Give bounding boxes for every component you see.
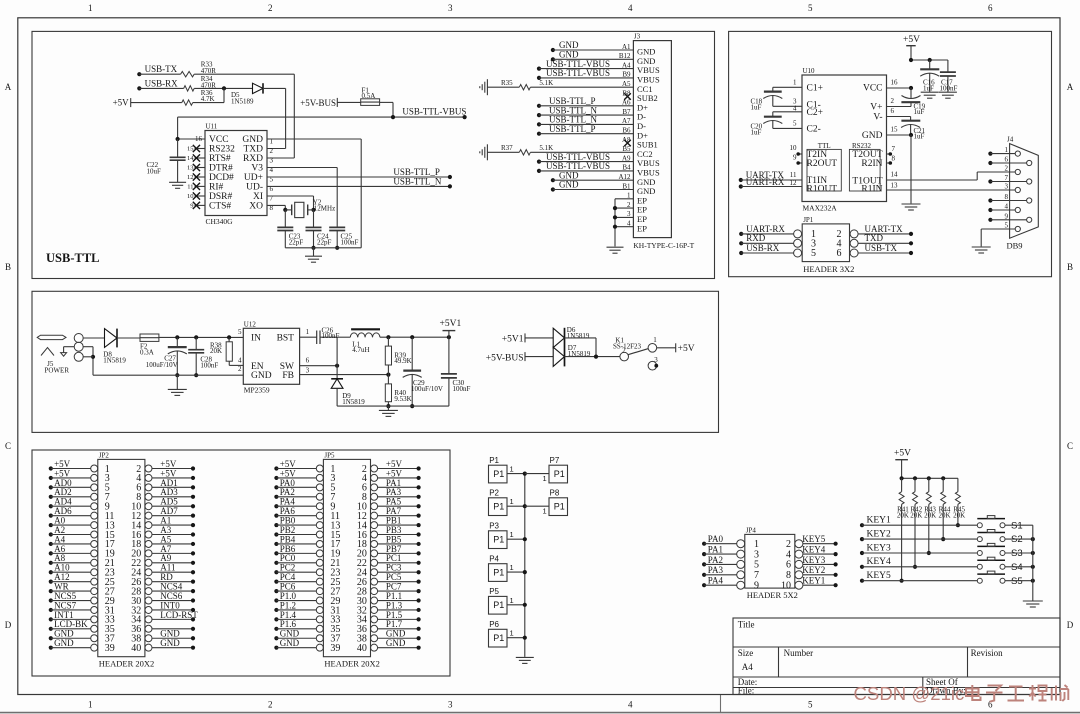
svg-text:+5V-BUS: +5V-BUS — [486, 353, 524, 363]
svg-text:RS232: RS232 — [852, 142, 872, 150]
capacitor C23 — [284, 210, 286, 228]
U11 pin4 V3 wire — [267, 167, 337, 169]
JP5 row 15 pins 29/30 — [316, 597, 323, 604]
JP5 row 11 pins 21/22 — [316, 559, 323, 566]
svg-text:CSDN @21ic: CSDN @21ic — [854, 683, 965, 704]
svg-text:4: 4 — [793, 104, 797, 112]
ground C22 — [169, 181, 186, 183]
svg-text:DTR#: DTR# — [209, 164, 233, 174]
svg-text:P3: P3 — [489, 522, 499, 531]
USB-TTL block border — [32, 31, 715, 278]
svg-text:11: 11 — [187, 183, 193, 190]
svg-text:TXD: TXD — [865, 233, 884, 243]
wire P-connector ground bus — [524, 474, 526, 657]
svg-text:P4: P4 — [489, 555, 499, 564]
svg-text:5: 5 — [238, 328, 242, 336]
connector J5 POWER jack — [37, 335, 66, 339]
svg-text:B: B — [5, 262, 11, 272]
svg-text:+5V-BUS: +5V-BUS — [300, 98, 336, 108]
wire R34 to D5 — [194, 87, 252, 89]
svg-text:1: 1 — [306, 328, 310, 336]
svg-text:1: 1 — [510, 530, 514, 539]
resistor R33 — [181, 72, 195, 77]
svg-text:KH-TYPE-C-16P-T: KH-TYPE-C-16P-T — [633, 241, 694, 250]
svg-text:5: 5 — [754, 560, 759, 571]
crystal ground rail — [285, 247, 361, 249]
svg-text:1: 1 — [510, 596, 514, 605]
svg-text:USB-TTL-VBUS: USB-TTL-VBUS — [546, 161, 610, 171]
JP2 row 16 pins 31/32 — [91, 606, 98, 613]
svg-text:GND: GND — [160, 638, 180, 648]
U11 pin8 XO wire — [267, 204, 285, 206]
svg-text:C1+: C1+ — [807, 83, 823, 93]
resistor R38 — [226, 342, 232, 361]
headers block border — [32, 450, 450, 676]
svg-text:16: 16 — [891, 79, 899, 87]
svg-text:6: 6 — [891, 107, 895, 115]
svg-text:P1: P1 — [489, 456, 499, 465]
svg-text:GND: GND — [242, 135, 263, 145]
net KEY2 — [860, 537, 864, 541]
svg-text:9: 9 — [793, 153, 797, 161]
capacitor C21 — [901, 120, 920, 122]
svg-text:4: 4 — [628, 3, 633, 13]
svg-text:A: A — [1067, 82, 1074, 92]
svg-text:R2OUT: R2OUT — [807, 159, 838, 169]
net KEY4 — [860, 565, 864, 569]
switch S2 — [977, 537, 982, 542]
svg-text:1: 1 — [1005, 146, 1009, 154]
svg-text:2: 2 — [622, 346, 626, 354]
svg-text:USB-TX: USB-TX — [145, 64, 178, 74]
crystal Y2 — [291, 205, 293, 216]
svg-text:10: 10 — [790, 144, 798, 152]
J5 wires — [83, 337, 104, 339]
svg-text:KEY3: KEY3 — [802, 555, 825, 565]
svg-text:FB: FB — [282, 371, 294, 381]
svg-text:S1: S1 — [1011, 520, 1023, 531]
svg-text:39: 39 — [330, 643, 340, 654]
svg-text:11: 11 — [790, 171, 797, 179]
net USB-TTL_P — [267, 176, 450, 178]
JP2 row 17 pins 33/34 — [91, 616, 98, 623]
JP5 row 20 pins 39/40 — [316, 644, 323, 651]
svg-text:GND: GND — [251, 371, 272, 381]
svg-text:20K: 20K — [953, 511, 965, 519]
JP2 row 2 pins 3/4 — [91, 474, 98, 481]
svg-text:+5V: +5V — [894, 448, 911, 458]
svg-text:3: 3 — [448, 700, 453, 710]
svg-text:R2IN: R2IN — [861, 159, 882, 169]
connector P2 — [489, 498, 508, 516]
watermark CJK glyphs — [966, 685, 981, 700]
svg-text:P5: P5 — [489, 587, 499, 596]
svg-text:S5: S5 — [1011, 576, 1023, 587]
svg-text:6: 6 — [988, 3, 993, 13]
svg-text:0.5A: 0.5A — [362, 92, 376, 100]
svg-text:GND: GND — [54, 638, 74, 648]
svg-text:4.7uH: 4.7uH — [352, 346, 369, 354]
svg-text:0.3A: 0.3A — [140, 348, 154, 356]
svg-text:3: 3 — [1005, 183, 1009, 191]
diode D6 — [553, 328, 564, 347]
connector JP1 HEADER 3X2 — [802, 224, 849, 262]
svg-text:J3: J3 — [634, 33, 641, 41]
net KEY5 — [860, 579, 864, 583]
svg-text:1uF: 1uF — [751, 128, 762, 136]
svg-text:8: 8 — [892, 154, 896, 162]
output ground rail — [337, 405, 449, 407]
connector J3 KH-TYPE-C-16P-T — [633, 41, 671, 238]
svg-text:P1: P1 — [493, 469, 504, 479]
wire GND down — [910, 135, 912, 203]
ground power input — [176, 375, 178, 389]
svg-text:MAX232A: MAX232A — [803, 203, 838, 212]
resistor R45 — [957, 478, 959, 491]
JP4 row 4 — [737, 571, 745, 579]
wire F2 to U12 IN — [159, 336, 243, 338]
svg-text:U11: U11 — [206, 123, 218, 131]
U10 pin2 V+ wire — [887, 106, 912, 108]
svg-text:6: 6 — [306, 356, 310, 364]
svg-text:9: 9 — [1005, 212, 1009, 220]
svg-text:1: 1 — [543, 474, 547, 483]
capacitor C16 — [929, 60, 931, 69]
svg-text:CH340G: CH340G — [206, 217, 234, 226]
svg-text:8: 8 — [1005, 193, 1009, 201]
svg-text:1: 1 — [793, 78, 797, 86]
svg-text:10uF: 10uF — [147, 168, 162, 176]
svg-text:P1: P1 — [493, 633, 504, 643]
svg-text:8: 8 — [786, 570, 791, 581]
U11 NC pins with X marks — [195, 148, 206, 150]
U10 RS232 group box — [849, 149, 880, 191]
diode D5 — [253, 83, 264, 93]
svg-text:J4: J4 — [1007, 136, 1014, 144]
svg-text:1: 1 — [510, 563, 514, 572]
diode cathode bar D6 D7 — [564, 328, 566, 367]
svg-text:20K: 20K — [938, 511, 950, 519]
wire VBUS to VCC — [177, 117, 179, 139]
JP4 row 2 — [737, 550, 745, 558]
svg-text:1: 1 — [653, 336, 657, 344]
net KEY1 — [860, 523, 864, 527]
U10 pin11 T1IN wire / net UART-TX — [739, 178, 743, 182]
JP5 row 19 pins 37/38 — [316, 635, 323, 642]
capacitor C26 — [316, 331, 318, 345]
svg-text:+5V: +5V — [113, 98, 130, 108]
svg-text:KEY5: KEY5 — [867, 571, 892, 581]
svg-text:100uF/10V: 100uF/10V — [146, 361, 178, 369]
switch S3 — [977, 551, 982, 556]
U10 pin14 T1OUT wire to DB9 pin2 — [887, 179, 978, 181]
IC U10 MAX232A — [802, 75, 887, 202]
svg-text:C: C — [1067, 441, 1073, 451]
U11 pin1 GND wire — [267, 138, 361, 140]
connector P6 — [489, 629, 508, 647]
svg-text:2: 2 — [268, 700, 273, 710]
U10 pin13 R1IN wire to DB9 pin3 — [887, 189, 1016, 191]
svg-text:PA2: PA2 — [708, 555, 723, 565]
power block border — [32, 291, 719, 432]
wire keys ground bus — [1032, 525, 1034, 600]
U10 pin15 GND wire — [887, 134, 912, 136]
MAX232 block border — [729, 31, 1052, 276]
connector P7 — [549, 465, 568, 483]
switch S5 — [977, 578, 982, 583]
connector P8 — [549, 498, 568, 516]
svg-text:V3: V3 — [251, 164, 263, 174]
svg-text:39: 39 — [105, 643, 115, 654]
J4 pin wires right column — [988, 161, 992, 165]
JP2 row 14 pins 27/28 — [91, 588, 98, 595]
JP5 row 1 pins 1/2 — [316, 465, 323, 472]
svg-text:HEADER 20X2: HEADER 20X2 — [99, 659, 154, 669]
svg-text:100nF: 100nF — [940, 85, 958, 93]
svg-text:S3: S3 — [1011, 548, 1023, 559]
svg-text:14: 14 — [891, 171, 899, 179]
JP5 row 14 pins 27/28 — [316, 588, 323, 595]
svg-text:2: 2 — [786, 539, 791, 550]
svg-text:USB-TTL: USB-TTL — [46, 251, 100, 265]
svg-text:+5V: +5V — [678, 344, 695, 354]
svg-text:A4: A4 — [742, 662, 753, 672]
svg-text:JP1: JP1 — [803, 216, 814, 224]
wire D8 to F2 — [117, 337, 140, 339]
wire pullup rail — [902, 477, 958, 479]
svg-text:Size: Size — [738, 648, 754, 658]
svg-text:R35: R35 — [501, 79, 513, 87]
svg-text:1: 1 — [510, 629, 514, 638]
switch S4 — [977, 564, 982, 569]
svg-text:13: 13 — [891, 181, 899, 189]
svg-text:A: A — [5, 82, 12, 92]
svg-text:100nF: 100nF — [453, 385, 471, 393]
U10 pin4 C2+ wire — [773, 111, 802, 113]
JP4 row 5 — [737, 581, 745, 589]
svg-text:4.7K: 4.7K — [201, 95, 215, 103]
svg-text:1: 1 — [543, 507, 547, 516]
svg-text:JP4: JP4 — [746, 526, 757, 534]
svg-text:5: 5 — [808, 3, 813, 13]
svg-text:GND: GND — [862, 131, 883, 141]
ground C17 — [939, 91, 957, 93]
svg-text:10: 10 — [781, 581, 791, 592]
svg-text:S4: S4 — [1011, 562, 1023, 573]
svg-text:VCC: VCC — [209, 135, 229, 145]
resistor R42 — [914, 478, 916, 491]
svg-text:22pF: 22pF — [289, 239, 304, 247]
svg-text:D: D — [1067, 620, 1074, 630]
svg-text:1N5819: 1N5819 — [103, 357, 126, 365]
resistor R39 — [387, 337, 389, 346]
JP5 row 13 pins 25/26 — [316, 578, 323, 585]
svg-text:16: 16 — [195, 135, 203, 143]
svg-text:V-: V- — [873, 113, 882, 123]
svg-text:Revision: Revision — [971, 648, 1004, 658]
svg-text:C2-: C2- — [807, 125, 821, 135]
wire R36 to junction — [193, 102, 224, 104]
JP2 row 3 pins 5/6 — [91, 484, 98, 491]
U12 pin1 BST wire — [300, 336, 317, 338]
capacitor C22 — [170, 156, 186, 158]
svg-text:15: 15 — [187, 146, 194, 153]
capacitor C20 — [764, 116, 782, 118]
connector JP5 HEADER 20X2 — [323, 459, 370, 656]
U10 pin1 C1+ wire — [773, 86, 802, 88]
svg-text:6: 6 — [1005, 155, 1009, 163]
svg-text:GND: GND — [559, 180, 579, 190]
JP5 row 18 pins 35/36 — [316, 625, 323, 632]
svg-text:P7: P7 — [550, 456, 560, 465]
svg-text:15: 15 — [891, 126, 899, 134]
svg-text:UART-RX: UART-RX — [746, 177, 785, 187]
svg-text:JP5: JP5 — [324, 451, 335, 459]
svg-text:RTS#: RTS# — [209, 154, 231, 164]
svg-text:KEY5: KEY5 — [802, 534, 825, 544]
JP5 row 2 pins 3/4 — [316, 474, 323, 481]
svg-text:RXD: RXD — [746, 233, 766, 243]
svg-text:PA3: PA3 — [708, 565, 724, 575]
svg-text:4: 4 — [628, 700, 633, 710]
svg-text:U12: U12 — [244, 320, 257, 328]
JP5 row 12 pins 23/24 — [316, 569, 323, 576]
JP2 row 6 pins 11/12 — [91, 512, 98, 519]
ground R35 — [486, 79, 488, 95]
JP2 row 13 pins 25/26 — [91, 578, 98, 585]
svg-text:V+: V+ — [870, 103, 882, 113]
svg-text:PA4: PA4 — [708, 576, 724, 586]
svg-text:40: 40 — [131, 643, 141, 654]
svg-text:12: 12 — [790, 179, 798, 187]
svg-text:49.9K: 49.9K — [394, 357, 411, 365]
svg-text:P1: P1 — [554, 502, 565, 512]
fuse F1 — [361, 99, 380, 106]
svg-text:40: 40 — [357, 643, 367, 654]
svg-text:1uF: 1uF — [914, 108, 925, 116]
JP5 row 8 pins 15/16 — [316, 531, 323, 538]
svg-text:R1IN: R1IN — [861, 184, 882, 194]
svg-text:6: 6 — [837, 248, 842, 259]
svg-text:9: 9 — [754, 581, 759, 592]
svg-text:LCD-RST: LCD-RST — [160, 610, 198, 620]
svg-text:JP2: JP2 — [99, 451, 110, 459]
diode D8 — [105, 329, 118, 348]
svg-text:MP2359: MP2359 — [244, 386, 270, 395]
resistor R37 — [487, 151, 519, 153]
capacitor C19 — [910, 88, 912, 99]
svg-text:EP: EP — [637, 223, 647, 233]
wire D5 to TXD — [263, 87, 286, 89]
svg-text:12MHz: 12MHz — [314, 205, 335, 213]
J4 pin wires left column — [988, 152, 992, 156]
diode D9 — [331, 378, 343, 380]
wire diodes to switch — [565, 337, 597, 339]
svg-text:6: 6 — [786, 560, 791, 571]
IC U12 MP2359 — [243, 328, 299, 384]
JP5 row 16 pins 31/32 — [316, 606, 323, 613]
JP5 row 17 pins 33/34 — [316, 616, 323, 623]
svg-text:P1: P1 — [493, 502, 504, 512]
JP5 row 5 pins 9/10 — [316, 503, 323, 510]
capacitor C29 — [411, 337, 413, 370]
svg-text:1: 1 — [88, 3, 93, 13]
JP2 row 5 pins 9/10 — [91, 503, 98, 510]
switch S1 — [977, 523, 982, 528]
svg-text:3: 3 — [306, 366, 310, 374]
wire USB-TX to RXD — [194, 73, 294, 75]
capacitor C17 — [947, 60, 949, 72]
svg-text:USB-TTL_N: USB-TTL_N — [393, 176, 441, 186]
svg-text:3: 3 — [654, 356, 658, 364]
svg-text:XO: XO — [249, 202, 263, 212]
capacitor C28 — [195, 337, 197, 349]
svg-text:9.53K: 9.53K — [394, 395, 411, 403]
svg-text:P2: P2 — [489, 489, 499, 498]
svg-text:RS232: RS232 — [209, 145, 235, 155]
IC U11 CH340G — [205, 131, 267, 216]
fuse F2 — [140, 334, 159, 341]
JP1 right wires — [858, 233, 911, 235]
svg-text:S2: S2 — [1011, 534, 1023, 545]
connector P5 — [489, 596, 508, 614]
svg-text:USB-RX: USB-RX — [145, 78, 179, 88]
svg-text:P1: P1 — [493, 600, 504, 610]
J4 pin5 ground — [981, 228, 1015, 230]
capacitor C27 — [176, 337, 178, 347]
svg-text:4: 4 — [238, 356, 242, 364]
svg-text:3: 3 — [270, 156, 274, 164]
ground R37 — [486, 144, 488, 160]
JP2 row 9 pins 17/18 — [91, 540, 98, 547]
svg-text:GND: GND — [280, 638, 300, 648]
connector P3 — [489, 531, 508, 549]
net USB-TTL_N — [267, 185, 450, 187]
net USB-TTL-VBUS — [178, 116, 465, 118]
svg-text:100nF: 100nF — [200, 362, 218, 370]
JP1 left wires — [739, 232, 743, 236]
svg-text:1: 1 — [510, 497, 514, 506]
svg-text:HEADER 3X2: HEADER 3X2 — [803, 264, 854, 274]
svg-text:KEY1: KEY1 — [867, 516, 892, 526]
power ground rail — [93, 374, 243, 376]
ground C16 — [921, 91, 939, 93]
capacitor C24 — [313, 210, 315, 228]
JP5 row 3 pins 5/6 — [316, 484, 323, 491]
svg-text:D: D — [5, 620, 12, 630]
svg-text:5.1K: 5.1K — [539, 79, 553, 87]
svg-text:RI#: RI# — [209, 183, 224, 193]
diode D7 — [553, 347, 564, 366]
svg-text:TTL: TTL — [818, 142, 831, 150]
svg-text:3: 3 — [448, 3, 453, 13]
svg-text:File:: File: — [738, 686, 755, 696]
svg-text:1: 1 — [754, 539, 759, 550]
JP5 row 4 pins 7/8 — [316, 493, 323, 500]
U10 pins 10 9 stubs — [799, 153, 803, 155]
capacitor C30 — [448, 337, 450, 374]
JP2 row 15 pins 29/30 — [91, 597, 98, 604]
svg-text:5: 5 — [793, 119, 797, 127]
svg-text:20K: 20K — [210, 347, 222, 355]
svg-text:13: 13 — [187, 165, 194, 172]
ground output — [379, 409, 398, 411]
svg-text:P1: P1 — [493, 568, 504, 578]
svg-text:5: 5 — [1005, 222, 1009, 230]
svg-text:14: 14 — [187, 155, 194, 162]
svg-text:2: 2 — [891, 97, 895, 105]
net USB-TX — [137, 72, 141, 76]
